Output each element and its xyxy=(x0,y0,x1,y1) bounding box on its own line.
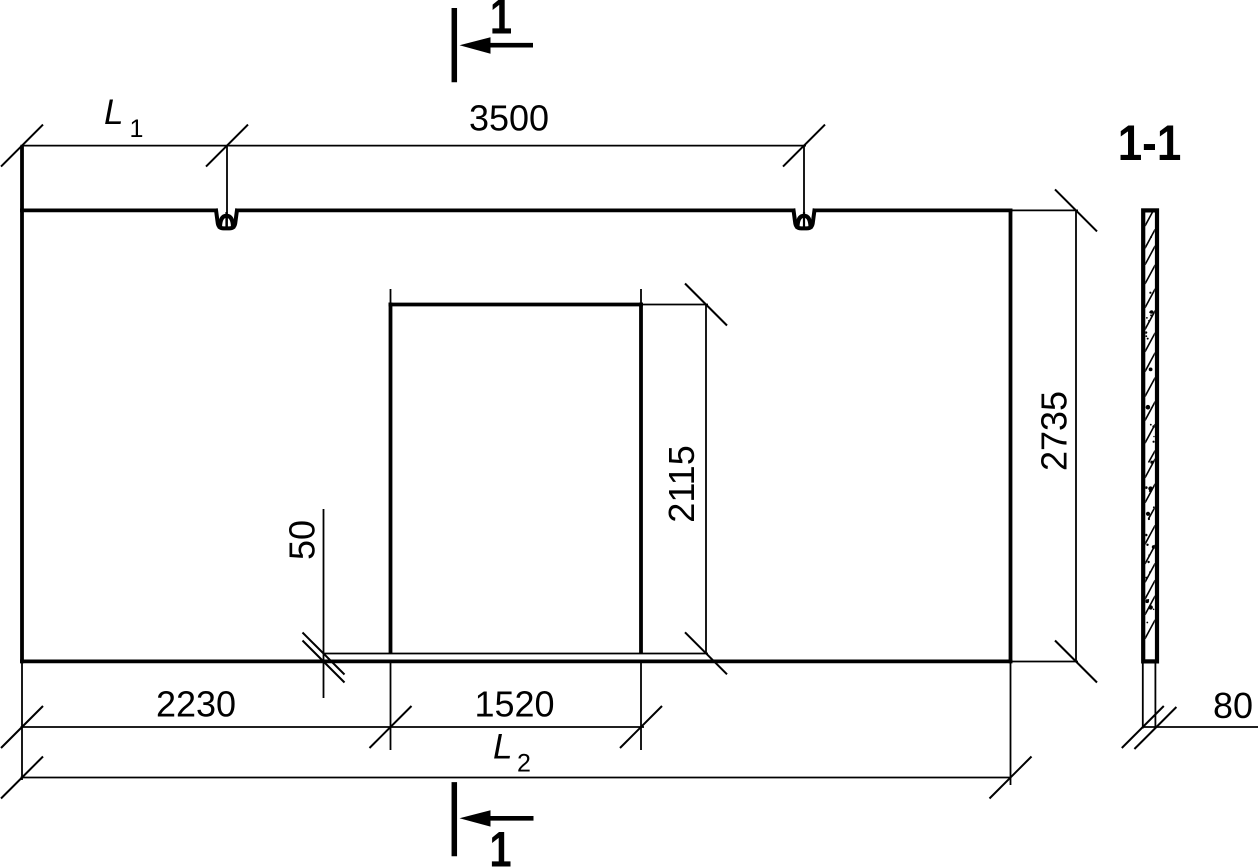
svg-text:L: L xyxy=(493,728,512,767)
svg-text:2115: 2115 xyxy=(661,445,702,522)
svg-text:50: 50 xyxy=(282,520,323,560)
svg-text:1: 1 xyxy=(489,821,511,867)
svg-text:3500: 3500 xyxy=(469,97,549,138)
svg-text:2: 2 xyxy=(517,749,531,777)
svg-text:80: 80 xyxy=(1213,685,1253,726)
svg-text:2735: 2735 xyxy=(1033,391,1074,471)
svg-text:2230: 2230 xyxy=(156,684,236,725)
svg-text:1: 1 xyxy=(490,0,512,44)
svg-text:1520: 1520 xyxy=(474,684,554,725)
svg-text:1: 1 xyxy=(130,115,144,143)
svg-text:1-1: 1-1 xyxy=(1118,114,1182,170)
svg-text:L: L xyxy=(104,93,123,132)
